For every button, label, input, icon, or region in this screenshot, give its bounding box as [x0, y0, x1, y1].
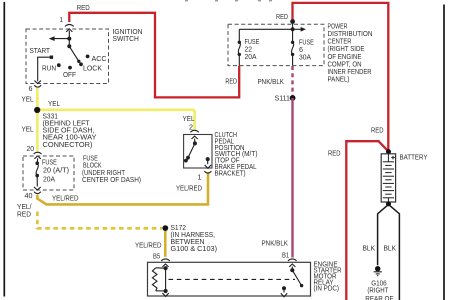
battery B+ box [381, 154, 395, 202]
svg-text:YEL: YEL [48, 99, 60, 108]
svg-text:PNK/BLK: PNK/BLK [258, 77, 285, 86]
PDC bus junction dot [291, 27, 295, 31]
connector pin 40 fuse block [34, 187, 41, 194]
border frame right [443, 5, 445, 300]
label LOCK [83, 63, 102, 72]
label RED (left of fuse 22 feed) [225, 76, 237, 85]
engine starter motor relay box [148, 262, 311, 296]
label RED (ignition feed top) [77, 3, 90, 12]
pin 6 label [29, 84, 33, 93]
node S172 text [171, 223, 218, 253]
battery feed junction dot [386, 149, 391, 154]
svg-text:20A: 20A [43, 175, 55, 184]
fuse block name labels [82, 154, 141, 185]
svg-text:RED: RED [276, 12, 288, 21]
clutch switch lower-left contact [184, 159, 188, 163]
label ACC [92, 54, 107, 63]
fuse block dashed box [23, 156, 74, 190]
fuse 22 terminal dots [238, 41, 241, 57]
label YEL/RED (B5) [135, 240, 162, 249]
battery cell plates [383, 154, 394, 202]
ignition switch internal node dot A [67, 37, 71, 41]
fuse 6 terminal dots [291, 41, 294, 57]
label PNK/BLK (upper) [258, 77, 285, 86]
battery plus sign [391, 156, 395, 160]
relay coil K1 [152, 268, 165, 291]
svg-text:BATTERY: BATTERY [400, 152, 428, 161]
label RED (above PDC) [276, 12, 288, 21]
connector pin 6 ignition [34, 81, 41, 88]
wire PNK/BLK solid (S111 to relay B1) [291, 98, 293, 258]
wire RED ignition feed [69, 13, 239, 98]
fuse 6 element [292, 29, 294, 65]
clutch switch box [184, 135, 212, 169]
label BATTERY [400, 152, 428, 161]
wire BLK right (battery to starter) [390, 205, 400, 300]
svg-text:BLK: BLK [363, 243, 376, 252]
svg-text:OFF: OFF [63, 70, 77, 79]
svg-text:YEL/RED: YEL/RED [135, 240, 162, 249]
svg-text:S111: S111 [275, 94, 291, 103]
fuse 20 element [36, 163, 38, 186]
clutch switch arm [186, 143, 195, 159]
node S331 text [43, 111, 97, 148]
connector pin 1 ignition [65, 24, 74, 38]
svg-text:B1: B1 [282, 251, 289, 260]
svg-text:CONNECTOR): CONNECTOR) [43, 140, 93, 149]
label RED (starter feed) [328, 149, 341, 158]
PDC feed terminal dot [290, 19, 295, 29]
svg-text:1: 1 [60, 15, 64, 24]
relay mechanical dashed link [169, 278, 296, 280]
pin B1 label [282, 251, 289, 260]
svg-text:40: 40 [25, 191, 33, 200]
splice S111 dot [290, 95, 296, 101]
relay coil exit arrow [162, 293, 168, 296]
svg-text:RED: RED [371, 125, 384, 134]
svg-text:20A: 20A [245, 52, 257, 61]
label START [30, 46, 51, 55]
svg-text:2: 2 [189, 122, 193, 131]
connector pin 1 clutch switch [204, 165, 211, 173]
svg-text:YEL: YEL [22, 95, 34, 104]
ignition switch dashed box [26, 29, 109, 84]
svg-text:RUN: RUN [42, 64, 56, 73]
relay switch output contact [282, 286, 286, 290]
label PNK/BLK (lower) [262, 239, 289, 248]
label OFF [63, 70, 77, 79]
svg-text:ACC: ACC [92, 54, 107, 63]
svg-text:20 (A/T): 20 (A/T) [43, 166, 69, 175]
border frame left [3, 2, 5, 297]
label YEL (to fuse block) [22, 125, 34, 134]
label YEL (pin 6) [22, 95, 34, 104]
battery negative dot [386, 201, 391, 206]
wire RED starter feed [346, 141, 388, 300]
ground G106 symbol [374, 266, 382, 276]
svg-text:B5: B5 [153, 252, 160, 261]
label BLK (left) [363, 243, 376, 252]
connector pin B5 relay [161, 259, 170, 267]
svg-text:BLK: BLK [384, 243, 397, 252]
label IGNITION SWITCH [113, 27, 143, 43]
ignition switch internal node dot B [67, 39, 71, 49]
PDC internal bus [239, 27, 306, 32]
svg-text:G100 & C103): G100 & C103) [171, 244, 218, 253]
fuse 22 value labels [245, 37, 260, 61]
ignition feed-through arrow left [49, 36, 70, 41]
clutch switch right contact [206, 157, 210, 164]
contact RUN [57, 63, 61, 67]
fuse 20 value labels [42, 157, 69, 183]
fuse 22 element [238, 29, 240, 65]
clutch switch name labels [215, 130, 258, 177]
pin 20 label [27, 144, 35, 153]
pin 1 label (clutch) [198, 172, 202, 181]
clutch pedal position switch: YEL wire down [193, 110, 196, 130]
fuse 6 value labels [299, 38, 314, 62]
PDC name labels [328, 21, 373, 83]
contact OFF [68, 66, 72, 70]
ignition switch wiper arm [69, 46, 80, 63]
svg-text:6: 6 [29, 84, 33, 93]
connector pin 2 clutch switch [190, 130, 198, 143]
wire BLK left (battery to G106) [378, 205, 388, 265]
svg-text:RED: RED [17, 210, 31, 219]
fuse 20 terminal dots [35, 161, 39, 177]
contact ACC [86, 55, 90, 59]
svg-text:SWITCH: SWITCH [113, 34, 139, 43]
label RED (above battery) [371, 125, 384, 134]
wire YEL S331 to clutch switch [37, 109, 194, 112]
label YEL (clutch) [183, 114, 195, 123]
label RUN [42, 64, 56, 73]
contact LOCK [79, 62, 83, 66]
cut-off text remnants top [185, 0, 272, 1]
svg-text:YEL: YEL [22, 125, 34, 134]
svg-text:30A: 30A [299, 52, 311, 61]
svg-text:RED: RED [77, 3, 90, 12]
relay coil top dot [164, 266, 168, 270]
svg-text:CENTER OF DASH): CENTER OF DASH) [82, 175, 141, 184]
wire YEL/RED dashed to S172 [37, 212, 162, 229]
svg-text:(IN PDC): (IN PDC) [314, 283, 340, 292]
relay coil bottom dot [164, 289, 168, 293]
pin B5 label [153, 252, 160, 261]
pin 40 label [25, 191, 33, 200]
svg-text:RED: RED [328, 149, 341, 158]
relay switch common dot [290, 268, 294, 272]
contact START (square) [50, 56, 53, 59]
label BLK (right) [384, 243, 397, 252]
wire YEL pin6 down to S331 and to fuse block [36, 88, 39, 151]
label YEL/ RED (two lines) [17, 202, 32, 219]
svg-text:LOCK: LOCK [83, 63, 102, 72]
svg-text:20: 20 [27, 144, 35, 153]
wire YEL/RED S172 to relay B5 [164, 231, 167, 257]
wire YEL/RED pin40 to clutch pin 1 [37, 174, 208, 205]
clutch switch top contact [193, 141, 197, 145]
relay output exit arrow [281, 290, 287, 297]
pin 2 label [189, 122, 193, 131]
wire RED battery feed from PDC [293, 3, 389, 150]
svg-text:PANEL): PANEL) [328, 75, 350, 84]
svg-text:YEL/RED: YEL/RED [52, 194, 79, 203]
node G106 text [365, 278, 394, 300]
svg-text:REAR OF: REAR OF [365, 294, 394, 300]
relay name labels [314, 259, 342, 292]
svg-text:PNK/BLK: PNK/BLK [262, 239, 289, 248]
svg-text:RED: RED [225, 76, 237, 85]
svg-text:START: START [30, 46, 51, 55]
splice S331 dot [34, 107, 40, 113]
relay switch arm [292, 270, 303, 287]
svg-text:YEL/RED: YEL/RED [176, 183, 202, 192]
label YEL/RED (pin 40) [52, 194, 79, 203]
node S111 text [275, 94, 291, 103]
svg-text:BRACKET): BRACKET) [215, 168, 246, 177]
connector pin 20 fuse block [34, 152, 42, 163]
power distribution center dashed box [228, 24, 324, 65]
wire START contact to pin 6 [38, 57, 50, 81]
label YEL (S331 branch) [48, 99, 60, 108]
pin 1 label [60, 15, 64, 24]
splice S172 dot [162, 225, 168, 231]
svg-text:1: 1 [198, 172, 202, 181]
connector pin B1 relay [288, 259, 297, 270]
label YEL/RED (clutch pin 1) [176, 183, 202, 192]
wire PNK/BLK dashed (fuse 6 to S111) [291, 66, 293, 96]
